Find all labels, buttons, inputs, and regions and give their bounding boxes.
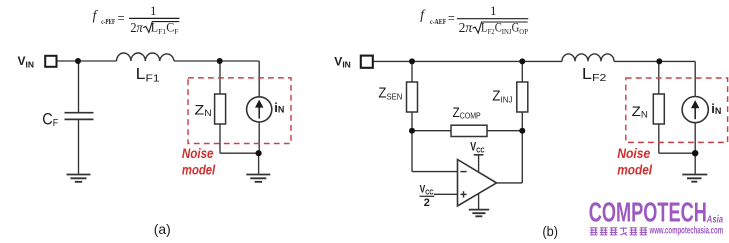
svg-text:ZN: ZN — [195, 101, 212, 118]
svg-text:CF: CF — [42, 110, 58, 130]
svg-text:COMPOTECH: COMPOTECH — [589, 197, 707, 228]
svg-text:ZN: ZN — [632, 103, 648, 120]
svg-text:VCC: VCC — [420, 184, 434, 197]
svg-text:LF1CF: LF1CF — [151, 21, 179, 37]
svg-text:=: = — [448, 12, 455, 27]
svg-text:LF2CINJGOP: LF2CINJGOP — [481, 20, 529, 36]
svg-text:VCC: VCC — [470, 142, 485, 155]
svg-text:f: f — [420, 7, 426, 22]
svg-text:iN: iN — [711, 101, 721, 116]
svg-text:LF1: LF1 — [136, 66, 160, 84]
svg-text:=: = — [118, 12, 125, 27]
svg-text:c-AEF: c-AEF — [430, 17, 447, 26]
svg-text:2π: 2π — [459, 20, 473, 35]
svg-text:VIN: VIN — [18, 54, 35, 69]
svg-text:model: model — [617, 162, 653, 178]
svg-text:ZSEN: ZSEN — [378, 86, 402, 102]
svg-text:VIN: VIN — [334, 54, 351, 69]
svg-text:Noise: Noise — [182, 145, 214, 161]
svg-text:2: 2 — [424, 197, 430, 209]
svg-text:ZCOMP: ZCOMP — [453, 105, 481, 121]
svg-text:Noise: Noise — [617, 145, 650, 161]
svg-text:(b): (b) — [542, 224, 558, 239]
svg-text:2π: 2π — [130, 20, 143, 35]
svg-text:(a): (a) — [154, 222, 171, 237]
svg-text:LF2: LF2 — [582, 66, 607, 84]
svg-text:c-PEF: c-PEF — [101, 17, 115, 26]
svg-text:iN: iN — [274, 100, 284, 115]
svg-text:1: 1 — [150, 4, 156, 18]
svg-text:ZINJ: ZINJ — [492, 88, 512, 104]
svg-text:model: model — [182, 161, 216, 177]
svg-text:f: f — [93, 8, 99, 23]
svg-text:1: 1 — [490, 4, 496, 18]
svg-text:www.compotechasia.com: www.compotechasia.com — [649, 226, 723, 237]
svg-text:Asia: Asia — [706, 213, 723, 225]
